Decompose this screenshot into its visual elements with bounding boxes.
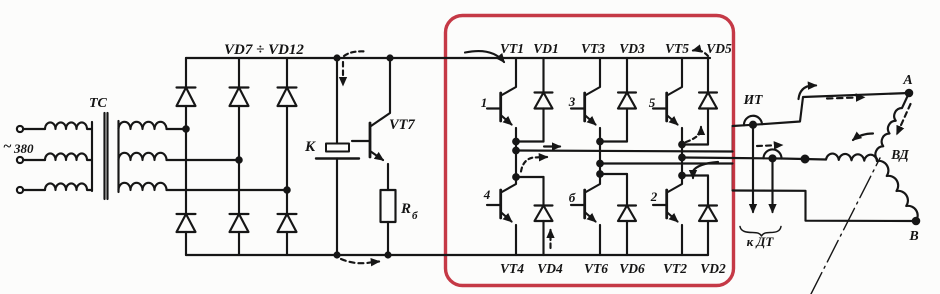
transistor VT6 base lead — [571, 204, 585, 206]
svg-text:А: А — [902, 73, 912, 88]
dashed current arrow along winding A — [897, 104, 911, 134]
svg-text:VT1: VT1 — [500, 41, 524, 56]
node VT7 branch on top bus — [388, 56, 393, 61]
node rail1 tap on leg1 — [513, 148, 519, 154]
wire lower junction leg3 to VD2 — [682, 174, 708, 176]
svg-text:VD6: VD6 — [619, 261, 645, 276]
dashed current arrow on bottom bus — [341, 259, 379, 263]
wire VT2 emitter to bottom bus — [681, 225, 683, 255]
transistor VT1 collector wire — [501, 58, 516, 96]
solid current arrow on rail 1 — [544, 145, 560, 147]
diode VD1 leg wire — [542, 58, 544, 142]
dashed arrow up through VD4 — [549, 230, 551, 248]
svg-text:VT5: VT5 — [665, 41, 689, 56]
current transformer IT-2 loop — [764, 149, 782, 158]
svg-text:б: б — [412, 210, 418, 222]
transistor VT2 base lead — [653, 204, 667, 206]
node emitter-diode junction leg2 — [597, 139, 603, 145]
transistor VT3 base lead — [571, 107, 585, 109]
svg-text:380: 380 — [13, 141, 34, 156]
svg-text:VD5: VD5 — [706, 41, 732, 56]
terminal input 1 — [17, 126, 23, 132]
transistor VT1 base lead — [487, 107, 501, 109]
wire VT4 emitter to bottom bus — [515, 225, 517, 255]
svg-text:VD4: VD4 — [537, 261, 563, 276]
wire VT5 emitter down to output node — [681, 128, 683, 176]
wire lower junction leg1 to VD4 — [516, 176, 544, 178]
svg-text:1: 1 — [481, 95, 488, 110]
diode VD11 (bridge bottom leg2) — [230, 214, 249, 232]
solid current arrow curving down into VT2 — [693, 162, 718, 178]
svg-text:к ДТ: к ДТ — [747, 234, 775, 249]
transistor VT7 emitter with arrow — [370, 151, 383, 160]
svg-text:VT6: VT6 — [584, 261, 608, 276]
node IT-2 tap — [770, 155, 776, 161]
dashed current arrow toward A — [827, 97, 864, 98]
dashed current arrow between IT transformers — [757, 145, 782, 146]
svg-text:ТС: ТС — [89, 96, 108, 111]
dashed arrow up along VD5 leg — [686, 127, 701, 142]
transformer TC secondary winding 3 — [119, 183, 167, 190]
svg-text:VT2: VT2 — [663, 261, 687, 276]
motor winding phase A (terminal A to star point) — [875, 93, 909, 161]
svg-text:б: б — [569, 190, 576, 205]
wire upper junction leg3 to VD5 — [682, 143, 708, 145]
diode VD3 — [618, 93, 636, 109]
red highlight box around inverter — [446, 16, 734, 286]
node emitter-diode junction leg1 — [513, 139, 519, 145]
node rail3 tap on leg2 — [597, 161, 603, 167]
transformer TC secondary winding 1 — [119, 122, 167, 129]
wire secondary phase 2 to bridge leg 2 — [167, 159, 240, 161]
terminal input 3 — [17, 187, 23, 193]
diode VD8 (bridge top leg2) — [230, 88, 249, 107]
wire secondary phase 1 to bridge leg 1 — [167, 128, 187, 130]
transformer TC primary winding 2 — [45, 153, 92, 160]
transformer TC primary winding 1 — [45, 122, 92, 129]
diode VD2 leg wire — [707, 176, 709, 256]
wire output line middle phase — [733, 158, 827, 160]
transistor VT5 base lead — [653, 107, 667, 109]
wire output line to motor terminal A — [733, 93, 910, 126]
wire IT-2 output to current sensor with arrow — [771, 158, 773, 212]
wire VT1 emitter down to output node — [515, 128, 517, 177]
contactor K upper plate — [326, 144, 349, 152]
wire output rail 2 (leg3 to border) — [682, 156, 733, 159]
diode VD4 leg wire — [542, 177, 544, 255]
resistor Rb — [381, 190, 396, 222]
transformer TC primary winding 3 — [45, 183, 92, 190]
node emitter-diode junction leg3 — [679, 142, 685, 148]
wire VT3 emitter down to output node — [599, 128, 601, 174]
wire secondary phase 3 to bridge leg 3 — [167, 189, 288, 191]
transistor VT7 base bar — [369, 123, 372, 157]
wire top bus to VT7 collector — [371, 58, 390, 126]
svg-text:ВД: ВД — [890, 147, 909, 162]
wire bottom DC bus — [186, 254, 708, 256]
node lower junction leg3 — [679, 173, 685, 179]
wire: hidden jog rail1 up behind red border — [732, 126, 734, 152]
node middle phase junction dot — [802, 156, 809, 163]
node lower junction leg2 — [597, 171, 603, 177]
transistor VT1 base bar — [499, 93, 502, 121]
wire VT6 emitter to bottom bus — [599, 225, 601, 255]
transistor VT5 emitter with arrow — [667, 115, 678, 125]
svg-text:VT3: VT3 — [581, 41, 605, 56]
brace under IT output arrows — [740, 227, 781, 237]
svg-text:~: ~ — [3, 139, 12, 155]
wire VT7 emitter to resistor — [387, 164, 389, 190]
dashed current arrow down after bridge — [344, 51, 366, 56]
transistor VT2 emitter with arrow — [667, 212, 678, 222]
diode VD9 (bridge top leg3) — [278, 88, 297, 107]
transformer core bar left — [103, 113, 105, 199]
svg-text:3: 3 — [568, 94, 576, 109]
transistor VT2 base bar — [665, 190, 668, 218]
svg-text:VD3: VD3 — [619, 41, 645, 56]
transistor VT3 emitter with arrow — [585, 115, 596, 125]
node lower junction leg1 — [513, 174, 519, 180]
transistor VT4 collector wire — [501, 177, 516, 193]
svg-text:VD7 ÷ VD12: VD7 ÷ VD12 — [224, 42, 304, 58]
transformer core bar right — [106, 113, 108, 199]
transistor VT7 base lead stub — [352, 140, 370, 142]
wire resistor to bottom bus — [387, 222, 389, 255]
transformer TC secondary winding 2 — [119, 153, 167, 160]
diode VD5 — [699, 93, 717, 109]
current transformer IT-1 loop — [744, 116, 762, 126]
transistor VT6 collector wire — [585, 174, 600, 193]
wire upper junction leg2 to VD3 — [600, 140, 627, 142]
diode VD3 leg wire — [626, 58, 628, 142]
wire bridge leg 3 — [286, 58, 288, 255]
transistor VT4 emitter with arrow — [501, 212, 512, 222]
wire phase3 to primary coil — [23, 189, 45, 191]
solid current arrow entering inverter on top bus — [465, 51, 504, 62]
motor winding phase B (star point to terminal B) — [877, 161, 918, 221]
transistor VT5 base bar — [665, 93, 668, 121]
svg-text:R: R — [400, 201, 411, 217]
svg-text:В: В — [908, 229, 918, 244]
svg-text:VT7: VT7 — [389, 117, 416, 133]
svg-text:2: 2 — [650, 189, 658, 204]
wire contactor K to bottom bus — [336, 159, 338, 256]
transistor VT6 base bar — [583, 190, 586, 218]
svg-text:К: К — [304, 139, 316, 155]
solid curved arrow at middle winding — [853, 134, 873, 141]
wire output rail 1 (leg1 to border) — [516, 151, 733, 152]
transistor VT6 emitter with arrow — [585, 212, 596, 222]
node phase3-leg3 junction — [284, 187, 289, 192]
diode VD4 — [535, 206, 553, 222]
node contactor on bottom bus — [335, 253, 340, 258]
node phase1-leg1 junction — [183, 126, 188, 131]
wire: hidden jog rail3 down behind red border — [732, 164, 734, 191]
diode VD12 (bridge bottom leg3) — [278, 214, 297, 232]
terminal input 2 — [17, 157, 23, 163]
transistor VT3 base bar — [583, 93, 586, 121]
transistor VT2 collector wire — [667, 176, 682, 193]
transformer secondary side bar — [117, 121, 119, 192]
svg-text:5: 5 — [649, 95, 656, 110]
wire bridge leg 2 — [238, 58, 240, 255]
solid hook arrow at A-line corner — [799, 85, 817, 99]
node IT-1 tap — [750, 122, 756, 128]
transistor VT4 base lead — [487, 204, 501, 206]
wire output line to motor terminal B — [733, 191, 917, 222]
wire upper junction leg1 to VD1 — [516, 140, 544, 142]
wire IT-1 output to current sensor with arrow — [752, 125, 754, 212]
diode VD5 leg wire — [707, 58, 709, 145]
node motor terminal B — [913, 218, 919, 224]
node motor terminal A — [906, 90, 912, 96]
diode VD7 (bridge top leg1) — [177, 88, 196, 107]
wire phase1 to primary coil — [23, 128, 45, 130]
svg-text:VT4: VT4 — [500, 261, 524, 276]
node phase2-leg2 junction — [236, 157, 241, 162]
transistor VT5 collector wire — [667, 58, 682, 96]
dashed current arrow under rail 1 — [521, 157, 547, 172]
wire top DC bus — [186, 57, 710, 59]
wire phase2 to primary coil — [23, 159, 45, 161]
rotor axis dash-dot diagonal — [811, 158, 880, 294]
diode VD6 — [618, 206, 636, 222]
contactor K lower plate — [316, 157, 359, 159]
wire lower junction leg2 to VD6 — [600, 173, 627, 175]
transistor VT4 base bar — [499, 190, 502, 218]
motor winding middle phase — [826, 154, 877, 161]
svg-text:ИТ: ИТ — [743, 92, 764, 107]
svg-text:4: 4 — [483, 187, 491, 202]
wire bridge leg 1 — [185, 58, 187, 255]
node VT7 branch on bottom bus — [386, 253, 391, 258]
node rail2 tap on leg3 — [679, 155, 685, 161]
wire output rail 3 (leg2 to border) — [600, 162, 733, 164]
dashed arrow from VD5 up to bus pointing left — [693, 50, 708, 56]
transformer primary side bar — [91, 122, 93, 191]
node contactor branch on top bus — [335, 56, 340, 61]
diode VD10 (bridge bottom leg1) — [177, 214, 196, 232]
wire top bus to contactor K — [336, 58, 338, 144]
svg-text:VD2: VD2 — [700, 261, 726, 276]
diode VD1 — [535, 93, 553, 109]
diode VD2 — [699, 206, 717, 222]
diode VD6 leg wire — [626, 174, 628, 255]
transistor VT3 collector wire — [585, 58, 600, 96]
svg-text:VD1: VD1 — [533, 41, 559, 56]
transistor VT1 emitter with arrow — [501, 115, 512, 125]
